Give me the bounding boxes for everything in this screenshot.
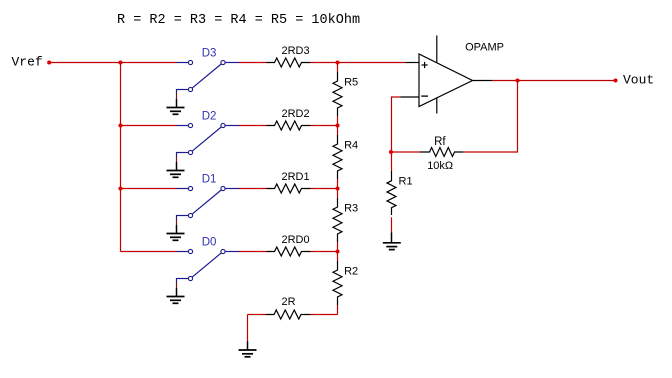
svg-text:R4: R4 <box>344 140 358 152</box>
svg-text:D3: D3 <box>202 48 217 60</box>
svg-text:R1: R1 <box>399 176 413 188</box>
svg-text:D1: D1 <box>202 174 217 186</box>
svg-text:Vref: Vref <box>12 55 43 70</box>
svg-text:2RD2: 2RD2 <box>282 108 310 120</box>
svg-text:R5: R5 <box>344 77 358 89</box>
svg-text:D0: D0 <box>202 237 217 249</box>
svg-text:R2: R2 <box>344 266 358 278</box>
svg-text:R3: R3 <box>344 203 358 215</box>
svg-text:R = R2 = R3 = R4 = R5 = 10kOhm: R = R2 = R3 = R4 = R5 = 10kOhm <box>117 13 360 28</box>
svg-text:D2: D2 <box>202 111 217 123</box>
svg-text:10kΩ: 10kΩ <box>427 160 453 172</box>
svg-text:OPAMP: OPAMP <box>465 42 504 54</box>
svg-text:2RD0: 2RD0 <box>282 234 310 246</box>
svg-text:Rf: Rf <box>434 136 446 148</box>
svg-text:2RD1: 2RD1 <box>282 171 310 183</box>
svg-text:2R: 2R <box>282 296 296 308</box>
svg-text:2RD3: 2RD3 <box>282 45 310 57</box>
svg-text:Vout: Vout <box>623 73 654 88</box>
